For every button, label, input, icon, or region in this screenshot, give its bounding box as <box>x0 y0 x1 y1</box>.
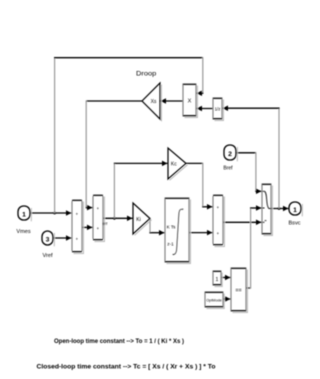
svg-text:+: + <box>216 205 219 210</box>
svg-text:Xs: Xs <box>151 99 157 105</box>
svg-text:+: + <box>75 236 78 241</box>
svg-text:3: 3 <box>46 236 50 243</box>
wire Switch to Bsvc <box>271 208 288 210</box>
node err branch <box>113 217 116 220</box>
wire Ki to integrator <box>149 219 151 233</box>
svg-text:z-1: z-1 <box>167 242 174 247</box>
wire droop feedback Xs to Sum2 <box>86 100 142 102</box>
node A branch of Vmes <box>53 212 56 215</box>
block edge caps <box>72 84 271 310</box>
svg-text:X: X <box>188 98 192 104</box>
unit delay 1/z <box>213 98 223 121</box>
wire Vref to Sum1 <box>53 237 71 239</box>
svg-text:err: err <box>102 221 108 226</box>
svg-text:1: 1 <box>22 211 26 218</box>
wire err Sum2 to Ki <box>103 217 132 219</box>
svg-text:Bsvc: Bsvc <box>288 221 300 227</box>
svg-text:+: + <box>96 206 99 211</box>
svg-text:==: == <box>235 288 241 294</box>
node B output branch <box>278 207 281 210</box>
discrete-time integrator <box>165 198 190 264</box>
svg-text:1: 1 <box>216 277 219 283</box>
svg-text:+: + <box>75 211 78 216</box>
product block X <box>183 84 197 118</box>
wire feedback B to unit delay <box>278 108 280 208</box>
constant 1 <box>213 271 222 287</box>
svg-text:+: + <box>96 226 99 231</box>
svg-text:Ki: Ki <box>136 217 140 223</box>
gain Xs droop <box>142 83 161 121</box>
sum block Sum1 <box>72 200 83 254</box>
wire Bref to Switch <box>236 152 256 154</box>
svg-text:Kc: Kc <box>171 162 177 168</box>
wire Kc to Sum3 <box>186 162 203 164</box>
wire integrator to Sum3 <box>189 232 212 234</box>
switch block <box>262 184 272 236</box>
svg-text:Open-loop time constant --> To: Open-loop time constant --> To = 1 / ( K… <box>54 338 184 345</box>
sum block Sum3 <box>213 195 224 247</box>
constant OptMode <box>205 292 224 309</box>
inport 3 Vref <box>42 231 54 259</box>
svg-text:Closed-loop time constant -->: Closed-loop time constant --> Tc = [ Xs … <box>37 364 216 371</box>
wire err branch up to Kc <box>113 163 115 218</box>
wire Sum3 to Switch <box>223 221 261 223</box>
wire Constant1 to compare <box>221 277 230 279</box>
wire Vmes to Sum1 <box>30 212 71 214</box>
wire Product to Xs <box>161 100 183 102</box>
svg-text:Bref: Bref <box>223 166 233 172</box>
wire Vmes branch up to Product (vertical risers gray) <box>54 58 56 213</box>
wire compare to Switch control <box>247 287 251 289</box>
svg-text:+: + <box>216 231 219 236</box>
svg-text:1: 1 <box>293 207 297 214</box>
sum block Sum2 <box>93 195 104 242</box>
svg-text:K Ts: K Ts <box>167 225 177 230</box>
wire Sum1 to Sum2 <box>82 226 92 228</box>
inport 2 Bref <box>223 145 237 172</box>
outport 1 Bsvc <box>288 202 302 227</box>
svg-text:2: 2 <box>228 151 232 158</box>
svg-text:Vmes: Vmes <box>16 229 31 235</box>
relational operator == <box>231 268 247 313</box>
svg-text:Droop: Droop <box>136 70 157 77</box>
wire unit delay to Product <box>197 108 213 110</box>
gain Ki <box>133 203 152 235</box>
svg-text:Vref: Vref <box>42 253 52 259</box>
svg-text:OptMode: OptMode <box>206 299 222 303</box>
svg-text:1/z: 1/z <box>215 107 221 112</box>
gain Kc <box>168 148 188 180</box>
wire OptMode to compare <box>223 298 230 300</box>
inport 1 Vmes <box>16 206 31 235</box>
